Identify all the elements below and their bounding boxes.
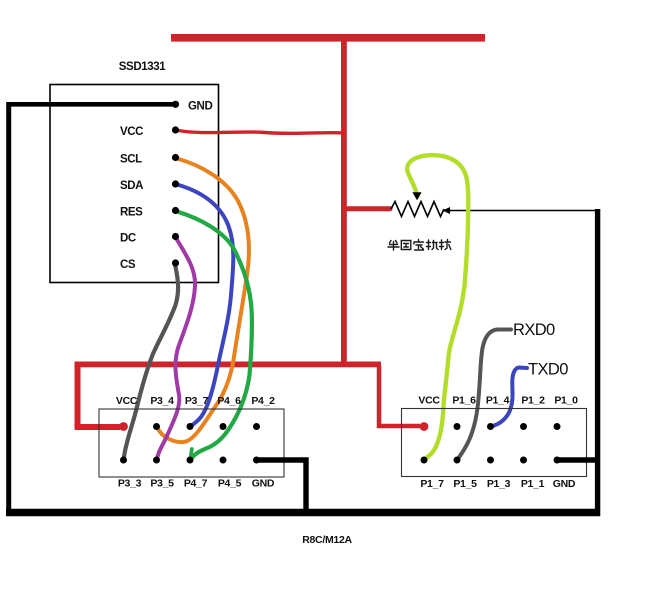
wire red vertical bus	[341, 41, 347, 367]
svg-text:VCC: VCC	[116, 395, 138, 407]
svg-text:P3_4: P3_4	[150, 395, 174, 407]
wire blue TXD0 to P1_4	[493, 368, 528, 427]
pin dot P3_4	[153, 423, 160, 430]
svg-text:TXD0: TXD0	[528, 361, 568, 379]
svg-text:RES: RES	[120, 207, 143, 219]
pin dot U1 SDA	[172, 180, 179, 187]
svg-text:P1_4: P1_4	[486, 395, 510, 407]
svg-text:RXD0: RXD0	[513, 321, 555, 339]
wire green RES to P4_7	[177, 212, 252, 458]
pin dot P1_6	[454, 423, 461, 430]
pin dot P4_7	[187, 457, 194, 464]
svg-text:P1_5: P1_5	[453, 478, 477, 490]
pin dot P3_3	[120, 457, 127, 464]
svg-text:P1_2: P1_2	[521, 395, 545, 407]
svg-text:VCC: VCC	[418, 395, 440, 407]
svg-text:GND: GND	[252, 478, 275, 490]
pin dot U1 RES	[172, 207, 179, 214]
wire black J1 GND to bottom border	[257, 460, 307, 510]
pin dot GND (J1)	[253, 457, 260, 464]
svg-text:CS: CS	[120, 259, 136, 271]
wire red right drop to J2 VCC	[379, 366, 420, 426]
resistor right terminal arrowhead	[443, 207, 451, 214]
wire black GND from U1 to left border	[9, 102, 175, 107]
pin dot P1_1	[520, 457, 527, 464]
pin dot U1 SCL	[172, 154, 179, 161]
pin dot P4_5	[220, 457, 227, 464]
svg-text:SDA: SDA	[120, 180, 143, 192]
svg-text:DC: DC	[120, 233, 136, 245]
pin dot P1_0	[554, 423, 561, 430]
pin dot P3_5	[153, 457, 160, 464]
wire red horizontal VCC distribution	[75, 362, 382, 368]
wire blue SDA to P3_7	[177, 185, 233, 427]
svg-text:GND: GND	[188, 101, 212, 113]
wire black bottom border bar	[6, 509, 600, 516]
pin dot VCC (J2, red)	[420, 422, 429, 431]
wire black left border vertical	[6, 102, 11, 512]
pin dot P4_6	[220, 423, 227, 430]
resistor wiper arrowhead	[412, 192, 421, 200]
svg-text:SCL: SCL	[120, 154, 142, 166]
pin dot U1 VCC	[172, 126, 179, 133]
pin dot P1_4	[487, 423, 494, 430]
pin dot U1 DC	[172, 233, 179, 240]
wire red stub to resistor	[347, 206, 390, 211]
pin dot P1_5	[454, 457, 461, 464]
wire gray RXD0 to P1_5	[458, 330, 512, 460]
svg-text:P4_7: P4_7	[184, 478, 208, 490]
svg-text:P1_6: P1_6	[452, 395, 476, 407]
svg-text:P3_3: P3_3	[118, 478, 142, 490]
wire black right border vertical	[595, 209, 600, 516]
pin dot U1 CS	[172, 259, 179, 266]
pin dot P1_2	[520, 423, 527, 430]
wire orange SCL to P3_4	[158, 159, 249, 443]
wire gray CS to P3_3	[124, 265, 178, 458]
pin dot GND (J2)	[554, 457, 561, 464]
svg-text:P1_1: P1_1	[521, 478, 545, 490]
svg-text:P1_3: P1_3	[487, 478, 511, 490]
svg-text:P1_7: P1_7	[420, 478, 444, 490]
wire yellow-green from resistor wiper to P1_7	[407, 155, 468, 459]
resistor VR1 zigzag	[391, 202, 444, 217]
wire red U1 VCC to bus	[178, 131, 344, 134]
power rail top bar (red bus)	[171, 34, 485, 42]
svg-text:P1_0: P1_0	[554, 395, 578, 407]
pin dot VCC (J1, red)	[119, 422, 128, 431]
wire black J2 GND to right border	[557, 457, 597, 463]
connector J1 box	[99, 409, 284, 477]
pin dot P4_2	[253, 423, 260, 430]
svg-text:P4_6: P4_6	[217, 395, 241, 407]
wire green end nub at P4_7	[191, 449, 192, 457]
wire thin black from resistor right terminal	[444, 210, 598, 212]
svg-text:P3_7: P3_7	[185, 395, 209, 407]
svg-text:P4_2: P4_2	[251, 395, 275, 407]
pin dot U1 GND	[172, 101, 179, 108]
pin dot P3_7	[187, 423, 194, 430]
svg-text:SSD1331: SSD1331	[119, 61, 166, 73]
wire purple DC to P3_5	[157, 238, 195, 458]
pin dot P1_7	[421, 457, 428, 464]
svg-text:R8C/M12A: R8C/M12A	[302, 534, 352, 546]
svg-text:P3_5: P3_5	[150, 478, 174, 490]
svg-text:VCC: VCC	[120, 126, 143, 138]
SSD1331 module box U1	[50, 85, 219, 283]
svg-text:P4_5: P4_5	[218, 478, 242, 490]
value label semi-fixed resistor (半固定抵抗 drawn as strokes)	[388, 240, 451, 251]
pin dot P1_3	[487, 457, 494, 464]
svg-text:GND: GND	[553, 478, 576, 490]
connector J2 box	[402, 409, 587, 477]
wire red left drop to J1 VCC	[78, 364, 121, 427]
